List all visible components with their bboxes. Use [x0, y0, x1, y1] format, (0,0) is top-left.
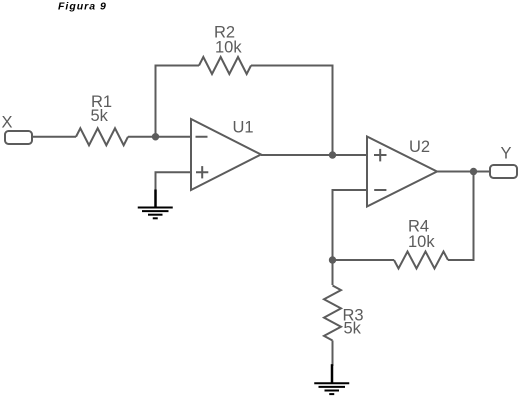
svg-text:5k: 5k [91, 107, 109, 125]
svg-text:10k: 10k [408, 233, 435, 251]
svg-text:Y: Y [501, 145, 512, 163]
svg-text:Figura 9: Figura 9 [58, 1, 107, 13]
svg-text:X: X [2, 114, 13, 132]
svg-text:5k: 5k [344, 320, 362, 338]
svg-text:U2: U2 [409, 138, 430, 156]
svg-text:10k: 10k [215, 39, 242, 57]
svg-text:U1: U1 [233, 119, 254, 137]
